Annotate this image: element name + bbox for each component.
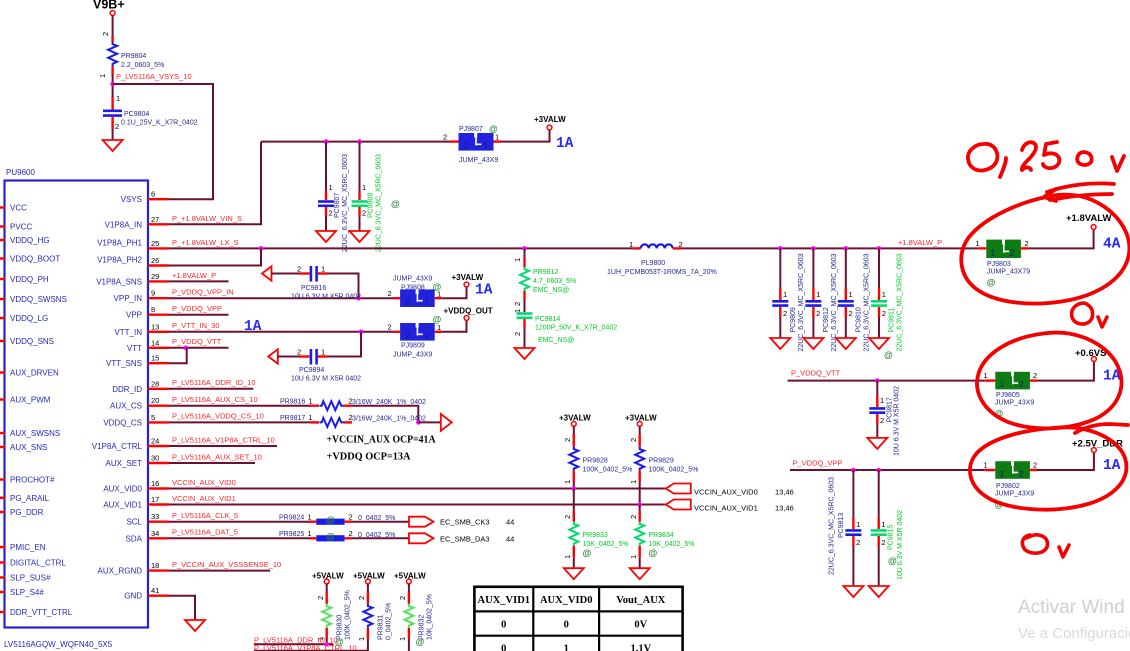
svg-text:1: 1 [425,298,430,307]
svg-text:16: 16 [151,479,159,488]
PU9600 left pin AUX_PWM [0,396,51,405]
PU9600 pin 24 V1P8A_CTRL [92,437,169,452]
junction PR9812 chain [522,246,527,251]
capacitor PC9815 [871,470,904,586]
svg-text:DIGITAL_CTRL: DIGITAL_CTRL [10,559,66,568]
junction PC9894 on pin13 row [359,330,364,335]
svg-text:+1.8VALW_P: +1.8VALW_P [172,271,216,280]
svg-text:100K_0402_5%: 100K_0402_5% [345,590,352,640]
svg-text:@: @ [888,556,897,566]
svg-text:1A: 1A [244,319,262,335]
svg-text:2: 2 [849,309,853,318]
svg-text:2: 2 [1019,379,1024,389]
svg-text:PR9825: PR9825 [279,531,304,538]
current label 1A (VTT_IN) [244,319,262,335]
handwritten circle around PJ9805 [977,333,1121,429]
svg-text:18: 18 [151,561,159,570]
svg-text:+3VALW: +3VALW [452,273,484,282]
svg-text:VCCIN_AUX_VID1: VCCIN_AUX_VID1 [172,494,236,503]
power flag +3VALW (top) [534,115,566,130]
svg-text:2: 2 [349,513,353,522]
PU9600 pin 26 V1P8A_PH2 [97,256,169,266]
svg-text:VTT: VTT [127,344,142,353]
PU9600 pin 18 AUX_RGND [98,561,169,576]
svg-text:+3VALW: +3VALW [559,414,591,423]
svg-text:0: 0 [501,620,506,631]
PU9600 left pin VDDQ_HG [0,236,50,245]
svg-text:2: 2 [856,538,860,547]
svg-text:PR9817: PR9817 [280,415,305,422]
svg-text:2: 2 [349,529,353,538]
PU9600 left pin VDDQ_LG [0,314,48,323]
svg-text:24: 24 [151,437,159,446]
handwritten annotation 0,250 v [968,142,1124,177]
svg-text:JUMP_43X9: JUMP_43X9 [393,276,432,283]
svg-text:10U 6.3V M X5R 0402: 10U 6.3V M X5R 0402 [897,510,904,580]
svg-text:VDDQ_LG: VDDQ_LG [10,314,48,323]
svg-text:AUX_VID0: AUX_VID0 [103,485,142,494]
wire net P_LV5116A_V1P8A_CTRL_10 (bottom) [254,644,368,651]
capacitor PC9817 [869,381,900,456]
svg-text:13,46: 13,46 [775,504,794,513]
wire PR9824 to port [352,521,409,523]
handwritten circle around PJ9802 [970,424,1128,510]
svg-text:JUMP_43X9: JUMP_43X9 [995,400,1034,407]
svg-text:2: 2 [443,133,447,142]
wire P_VDDQ_VPP [790,459,985,471]
net stub P_VDDQ_VPP (pin 8) [169,304,229,315]
capacitor PC9811 [871,248,904,360]
svg-text:1: 1 [881,520,885,529]
svg-text:AUX_VID1: AUX_VID1 [478,595,531,606]
net stub +1.8VALW_P (pin 29) [169,271,229,281]
svg-text:EC_SMB_CK3: EC_SMB_CK3 [440,518,490,527]
svg-text:2: 2 [316,596,325,600]
svg-text:1: 1 [564,644,569,651]
svg-text:AUX_CS: AUX_CS [110,402,142,411]
svg-text:VCCIN_AUX_VID1: VCCIN_AUX_VID1 [694,504,758,513]
svg-text:1: 1 [483,142,488,151]
jumper PJ9807 [443,124,501,164]
svg-text:22UC_6.3VC_MC_X5RC_0603: 22UC_6.3VC_MC_X5RC_0603 [376,154,383,252]
junction top rail PC9808 [357,139,362,144]
svg-text:PJ9803: PJ9803 [987,261,1011,268]
junction PC9817 [875,378,880,383]
svg-text:V1P8A_IN: V1P8A_IN [105,220,143,229]
PU9600 pin 34 SDA [126,529,169,544]
svg-text:1: 1 [984,461,988,470]
wire inductor to PJ9803 [681,247,978,249]
net stub P_VDDQ_VTT (pin 14) [169,337,229,348]
ground under PC9813 [843,586,863,597]
svg-text:26: 26 [151,256,159,265]
svg-text:27: 27 [151,215,159,224]
wire node to VSYS pin 6 [113,84,213,199]
svg-text:PR9834: PR9834 [649,532,674,539]
PU9600 pin 33 SCL [126,512,169,527]
svg-text:30: 30 [151,454,159,463]
svg-text:VCCIN_AUX_VID0: VCCIN_AUX_VID0 [172,478,236,487]
svg-text:2: 2 [563,515,572,519]
svg-text:1: 1 [984,371,988,380]
resistor PR9825 (0 ohm) [279,529,395,542]
svg-text:1: 1 [309,397,313,406]
svg-text:28: 28 [151,379,159,388]
svg-text:VCC: VCC [10,204,27,213]
svg-text:1: 1 [629,480,638,484]
svg-text:P_LV5116A_VDDQ_CS_10: P_LV5116A_VDDQ_CS_10 [172,412,264,421]
svg-text:+0.6VS: +0.6VS [1075,348,1106,359]
svg-text:P_VDDQ_VTT: P_VDDQ_VTT [791,369,841,378]
wire pin26 up to rail [169,248,261,265]
ground under PC9809 [770,338,790,349]
svg-text:Activar Wind: Activar Wind [1018,597,1125,618]
resistor PR9824 (0 ohm) [279,513,395,526]
svg-text:2: 2 [629,438,638,442]
svg-text:33: 33 [151,512,159,521]
svg-text:10U 6.3V M X5R 0402: 10U 6.3V M X5R 0402 [291,294,361,301]
svg-text:P_VDDQ_VPP: P_VDDQ_VPP [793,459,843,468]
svg-text:VDDQ_CS: VDDQ_CS [103,418,142,427]
port EC_SMB_CK3 [409,517,514,527]
svg-text:22UC_6.3VC_MC_X5RC_0603: 22UC_6.3VC_MC_X5RC_0603 [798,253,805,351]
wire PJ9807 to +3VALW [501,130,550,142]
capacitor PC9814 [513,300,617,348]
svg-text:P_LV5116A_AUX_CS_10: P_LV5116A_AUX_CS_10 [172,395,258,404]
svg-text:VDDQ_BOOT: VDDQ_BOOT [10,255,60,264]
svg-text:LV5116AGQW_WQFN40_5X5: LV5116AGQW_WQFN40_5X5 [4,640,113,649]
svg-text:PG_DDR: PG_DDR [10,508,44,517]
svg-text:PG_ARAIL: PG_ARAIL [10,494,50,503]
capacitor C PC9808 [352,142,401,252]
svg-text:P_+1.8VALW_VIN_S: P_+1.8VALW_VIN_S [172,214,242,223]
svg-text:1: 1 [783,290,787,299]
svg-text:PC9810: PC9810 [856,307,863,332]
ground under PC9804 [103,140,123,151]
junction rail PC9809 [778,246,783,251]
capacitor PC9812 [805,248,838,351]
wire net P_LV5116A_DDR_ID_10 (bottom) [254,636,338,645]
svg-text:25: 25 [151,239,159,248]
svg-text:+5VALW: +5VALW [312,572,344,581]
svg-text:PC9894: PC9894 [299,367,324,374]
jumper PJ9802 [984,461,1038,510]
capacitor PC9813 [829,470,862,586]
svg-text:1: 1 [116,94,120,103]
svg-text:PC9811: PC9811 [889,308,896,333]
net stub P_LV5116A_DDR_ID_10 (pin 28) [169,378,256,389]
svg-text:2: 2 [329,209,333,218]
power flag +3VALW (PR9829) [625,414,657,427]
svg-text:PROCHOT#: PROCHOT# [10,476,55,485]
svg-text:+1.8VALW_P: +1.8VALW_P [898,238,942,247]
resistor PR9831 [357,584,393,651]
junction PC9815 [876,468,881,473]
svg-text:VSYS: VSYS [121,195,142,204]
port VCCIN_AUX_VID0 [666,484,794,497]
svg-text:1: 1 [398,637,407,641]
resistor PR9816 [280,397,426,411]
svg-text:2: 2 [629,515,638,519]
junction PC9813 [851,468,856,473]
svg-text:AUX_SET: AUX_SET [106,459,143,468]
PU9600 pin 17 AUX_VID1 [103,495,169,510]
op-amp controller U PU9600 body [4,168,148,649]
junction pin15 joins pin14 [183,346,188,351]
svg-text:PC9804: PC9804 [124,111,149,118]
svg-text:1: 1 [882,290,886,299]
wire V9B+ to resistor [101,15,113,42]
PU9600 left pin VDDQ_BOOT [0,255,60,264]
jumper PJ9809 [388,315,442,359]
wire PJ9802 to +2.5V_DDR flag [1037,453,1094,471]
junction PR9816/PR9817 [416,420,421,425]
svg-text:4A: 4A [1103,237,1121,253]
svg-text:V9B+: V9B+ [93,0,125,12]
svg-text:1: 1 [362,183,366,192]
svg-text:PR9816: PR9816 [280,399,305,406]
svg-text:PR9829: PR9829 [649,458,674,465]
svg-text:10U 6.3V M X5R 0402: 10U 6.3V M X5R 0402 [894,386,901,456]
svg-text:PR9804: PR9804 [121,53,146,60]
svg-text:@: @ [326,532,335,542]
power flag +1.8VALW [1066,213,1112,229]
svg-text:@: @ [583,548,592,558]
ground under PC9814 [515,348,535,359]
wire pin27 to top rail [169,142,261,225]
junction pin26 joins pin25 [259,246,264,251]
power flag +5VALW (PR9830) [312,572,344,584]
svg-text:34: 34 [151,529,159,538]
power flag +3VALW (PJ9808) [452,273,484,287]
svg-text:AUX_SWSNS: AUX_SWSNS [10,429,60,438]
svg-text:V1P8A_PH1: V1P8A_PH1 [97,238,142,247]
capacitor PC9894 with left net arrow [268,332,361,383]
svg-text:1: 1 [321,265,325,274]
svg-text:2.2_0603_5%: 2.2_0603_5% [121,62,164,69]
svg-text:2: 2 [115,122,119,131]
power flag +5VALW (PR9831) [353,572,385,584]
PU9600 pin 13 VTT_IN [114,322,169,337]
current label 1A (PJ9807) [556,136,574,152]
svg-text:@: @ [987,278,996,288]
svg-text:2: 2 [513,302,522,306]
net stub P_LV5116A_V1P8A_CTRL_10 (pin 24) [169,435,277,446]
svg-text:+5VALW: +5VALW [394,572,426,581]
PU9600 pin 25 V1P8A_PH1 [97,238,169,248]
svg-text:9: 9 [151,289,155,298]
svg-text:41: 41 [151,586,159,595]
svg-text:100K_0402_5%: 100K_0402_5% [649,467,699,474]
svg-text:2: 2 [1010,247,1015,257]
svg-text:22UC_6.3VC_MC_X5RC_0603: 22UC_6.3VC_MC_X5RC_0603 [342,154,349,252]
PU9600 pin 20 AUX_CS [110,396,169,411]
svg-text:1: 1 [1000,379,1005,389]
svg-text:PC9812: PC9812 [823,307,830,332]
svg-text:PU9600: PU9600 [6,168,35,177]
power flag V9B+ [93,0,125,15]
svg-text:6: 6 [151,190,155,199]
resistor PR9812 [513,248,576,306]
jumper PJ9808 [388,276,442,308]
svg-text:VPP: VPP [126,311,142,320]
svg-text:2: 2 [464,142,469,151]
resistor PR9817 [280,413,426,427]
PU9600 left pin SLP_SUS# [0,574,51,583]
PU9600 pin 6 VSYS [121,190,169,204]
jumper PJ9805 [984,371,1038,419]
wire pin 25 rail P_+1.8VALW_LX_S [169,238,633,248]
svg-text:P_VDDQ_VTT: P_VDDQ_VTT [172,337,222,346]
PU9600 pin 15 VTT_SNS [106,354,169,369]
svg-text:0.1U_25V_K_X7R_0402: 0.1U_25V_K_X7R_0402 [121,120,198,127]
capacitor PC9810 [838,248,871,351]
PU9600 pin 5 VDDQ_CS [103,413,169,428]
svg-text:2: 2 [357,596,366,600]
svg-text:+3VALW: +3VALW [534,115,566,124]
wire junction to arrow [418,421,441,423]
svg-text:Vout_AUX: Vout_AUX [616,595,666,606]
wire pin 9 P_VDDQ_VPP_IN [169,288,394,299]
svg-text:AUX_PWM: AUX_PWM [10,396,51,405]
svg-text:13,46: 13,46 [775,488,794,497]
svg-text:1: 1 [816,290,820,299]
svg-text:PC9815: PC9815 [888,525,895,550]
svg-text:SDA: SDA [126,534,143,543]
svg-text:PVCC: PVCC [10,223,32,232]
power flag +2.5V_DDR [1072,439,1123,453]
PU9600 left pin PG_ARAIL [0,494,50,503]
svg-text:2: 2 [783,309,787,318]
resistor PR9830 [316,584,352,647]
svg-text:PC9813: PC9813 [838,513,845,538]
wire pin 13 P_VTT_IN_30 [169,321,394,332]
svg-text:Ve a Configuració: Ve a Configuració [1018,625,1130,642]
resistor PR9833 pull-down [563,489,628,569]
svg-text:2: 2 [513,332,522,336]
svg-text:13: 13 [151,322,159,331]
svg-text:EMC_NS@: EMC_NS@ [533,287,569,294]
wire top rail [261,141,450,143]
table Vout_AUX [474,587,682,651]
jumper PJ9803 [976,239,1031,288]
svg-text:1: 1 [991,247,996,257]
ground under PC9815 [869,586,889,597]
svg-text:VDDQ_SWSNS: VDDQ_SWSNS [10,295,67,304]
PU9600 pin 14 VTT [127,338,169,353]
net arrow (VCCIN_AUX current sense) [441,414,452,431]
wire VCCIN_AUX_VID1 (pin 17) [169,494,666,505]
svg-text:1: 1 [321,348,325,357]
svg-text:PC9816: PC9816 [301,285,326,292]
PU9600 left pin VDDQ_SNS [0,337,54,346]
svg-text:1: 1 [1000,469,1005,479]
svg-text:0: 0 [501,644,506,651]
svg-text:PR9831: PR9831 [378,615,385,640]
power flag +0.6VS [1075,348,1106,361]
wire PR9816 down to PR9817 row [352,406,418,423]
svg-text:1: 1 [563,555,572,559]
svg-text:2: 2 [101,32,110,36]
svg-text:VDDQ_PH: VDDQ_PH [10,275,49,284]
svg-text:V1P8A_CTRL: V1P8A_CTRL [92,442,143,451]
svg-text:AUX_DRVEN: AUX_DRVEN [10,369,59,378]
svg-text:P_VDDQ_VPP: P_VDDQ_VPP [172,304,222,313]
svg-text:2: 2 [388,289,392,298]
wire PJ9808 to +3VALW [441,287,466,298]
junction PR9830 bottom [324,642,329,647]
junction rail PC9811 [877,246,882,251]
svg-text:2: 2 [398,596,407,600]
svg-text:PC9807: PC9807 [334,193,341,218]
PU9600 pin 41 GND [124,586,169,601]
svg-text:1A: 1A [556,136,574,152]
svg-text:VPP_IN: VPP_IN [114,294,143,303]
svg-text:1: 1 [357,637,366,641]
svg-text:1A: 1A [1103,458,1121,474]
wire pin 5 P_LV5116A_VDDQ_CS_10 [169,412,310,423]
ground under PR9834 [630,568,650,579]
svg-text:5: 5 [151,413,155,422]
current label 1A (PJ9808) [475,283,493,299]
handwritten 0v (middle) [1072,303,1107,327]
svg-text:+5VALW: +5VALW [353,572,385,581]
svg-text:PC9809: PC9809 [790,307,797,332]
node P_LV5116A_VSYS_10 [110,72,191,97]
PU9600 left pin AUX_SNS [0,443,47,452]
wire pin 33 P_LV5116A_CLK_5 [169,511,309,522]
current label 1A (+2.5V_DDR) [1103,458,1121,474]
PU9600 left pin SLP_S4# [0,588,44,597]
ground at pin 41 [185,620,205,631]
PU9600 left pin PMIC_EN [0,543,46,552]
svg-text:2: 2 [388,323,392,332]
junction rail PC9812 [811,246,816,251]
svg-text:GND: GND [124,592,142,601]
svg-text:4.7_0603_5%: 4.7_0603_5% [533,278,576,285]
svg-text:2: 2 [880,416,884,425]
svg-text:1: 1 [976,239,980,248]
svg-text:JUMP_43X79: JUMP_43X79 [987,269,1030,276]
svg-text:1: 1 [880,396,884,405]
svg-text:+1.8VALW: +1.8VALW [1066,213,1112,224]
svg-text:1: 1 [425,331,430,340]
junction PR9829 on VID1 [637,502,642,507]
svg-text:AUX_VID0: AUX_VID0 [540,595,593,606]
svg-text:P_LV5116A_CLK_5: P_LV5116A_CLK_5 [172,511,238,520]
svg-text:@: @ [884,350,893,360]
svg-text:VCCIN_AUX_VID0: VCCIN_AUX_VID0 [694,488,758,497]
svg-text:0: 0 [564,620,569,631]
text +VDDQ OCP=13A [327,452,411,463]
svg-text:+3VALW: +3VALW [625,414,657,423]
PU9600 left pin PVCC [0,223,32,232]
svg-text:AUX_VID1: AUX_VID1 [103,501,142,510]
svg-text:JUMP_43X9: JUMP_43X9 [995,491,1034,498]
svg-text:1: 1 [308,513,312,522]
ground under PC9817 [867,438,887,449]
wire PJ9805 to +0.6VS flag [1037,362,1094,381]
svg-text:VDDQ_SNS: VDDQ_SNS [10,337,54,346]
svg-text:AUX_SNS: AUX_SNS [10,443,47,452]
resistor PR9834 pull-down [629,505,694,569]
svg-text:SLP_SUS#: SLP_SUS# [10,574,51,583]
PU9600 left pin VDDQ_PH [0,275,49,284]
svg-text:1: 1 [495,133,499,142]
resistor PR9804 [98,42,164,78]
svg-text:17: 17 [151,495,159,504]
svg-text:1: 1 [308,529,312,538]
